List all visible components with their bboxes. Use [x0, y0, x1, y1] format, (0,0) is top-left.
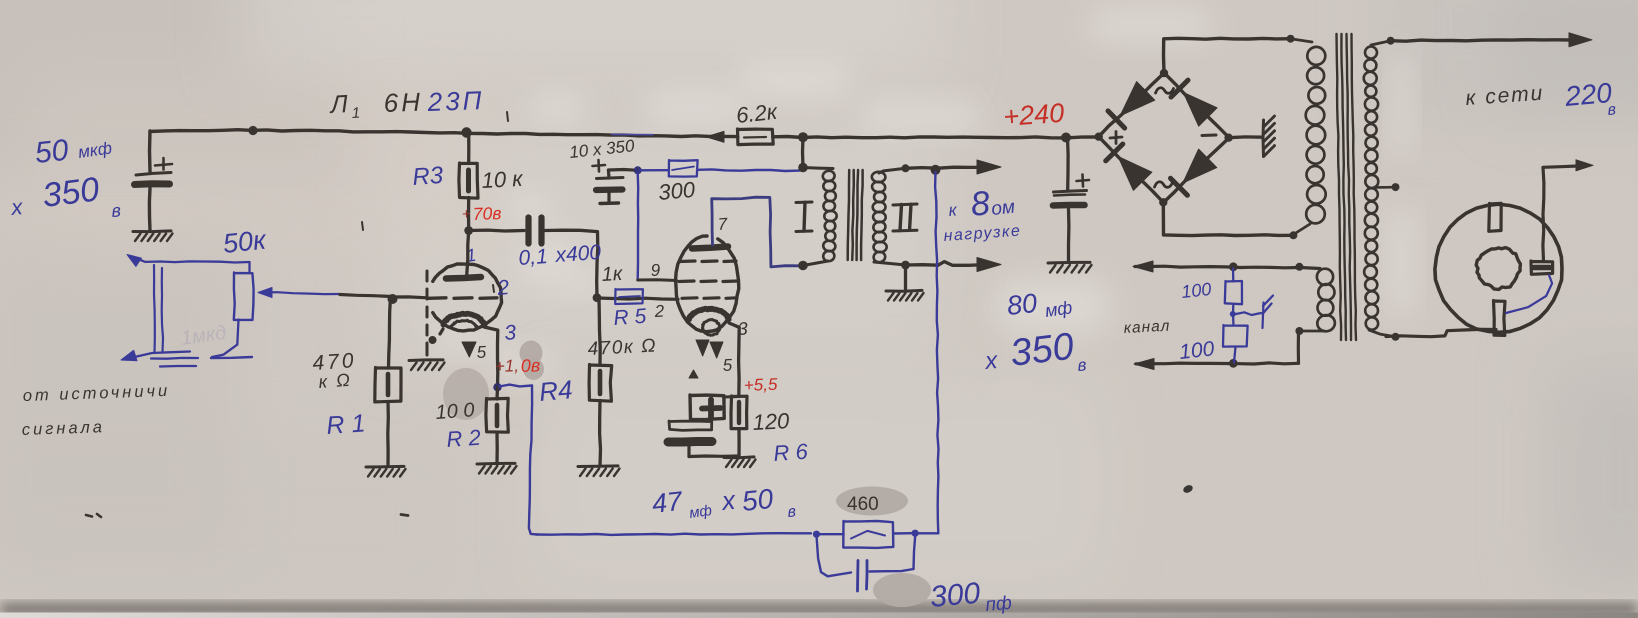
motor circle — [1435, 204, 1562, 332]
svg-text:7: 7 — [717, 214, 728, 233]
resistor R1 470k — [389, 297, 391, 368]
bridge top wire — [1164, 38, 1291, 73]
T1 core — [848, 170, 850, 260]
ground under C_50mkf — [133, 229, 171, 233]
wire node1 to V1 anode — [467, 231, 469, 275]
bridge - mark — [1202, 134, 1216, 138]
svg-text:80: 80 — [1005, 288, 1038, 321]
bridge ~ marks — [1156, 88, 1174, 94]
svg-text:23П: 23П — [426, 85, 485, 117]
resistor R6 120 — [731, 396, 747, 429]
wire top B+ bus — [150, 130, 738, 137]
svg-text:120: 120 — [752, 408, 791, 435]
svg-text:50к: 50к — [221, 225, 268, 259]
motor bottom dot — [1392, 333, 1400, 341]
bridge corner dots — [1095, 133, 1103, 141]
svg-text:0,1: 0,1 — [518, 245, 549, 270]
diode D3 lower-left — [1118, 156, 1152, 190]
T2 primary top dot — [1287, 35, 1295, 43]
V2 anode plate — [692, 247, 728, 249]
T1 primary bottom dot — [798, 261, 808, 271]
wire wiper to grid — [340, 295, 391, 297]
node dot C2 — [634, 166, 642, 174]
capacitor 300pf branch — [817, 536, 852, 577]
wire C1 to grid node — [545, 230, 598, 298]
resistor 100 lower (blue) — [1232, 314, 1235, 326]
svg-text:100: 100 — [1180, 279, 1212, 302]
resistor R4 470k — [599, 298, 600, 365]
V1 cathode arrow — [462, 342, 476, 357]
ground under R4 — [578, 464, 618, 468]
feedback left dot — [813, 531, 820, 538]
svg-text:R4: R4 — [538, 374, 574, 407]
svg-text:сигнала: сигнала — [22, 418, 106, 439]
mains arrow — [1391, 40, 1572, 42]
input arrow top — [132, 257, 250, 263]
wire to 460 — [817, 533, 844, 535]
V1 cathode — [443, 314, 484, 325]
svg-text:10 0: 10 0 — [435, 399, 475, 424]
motor right wire + arrow — [1543, 166, 1578, 262]
svg-text:460: 460 — [847, 494, 879, 515]
wire bus to T1 primary — [801, 137, 805, 167]
svg-text:х400: х400 — [554, 241, 602, 267]
svg-text:47: 47 — [650, 486, 684, 519]
node 1 dot — [464, 226, 473, 235]
motor blue rotation arc — [1506, 275, 1552, 313]
svg-text:2: 2 — [653, 301, 665, 321]
V1 cathode wire — [484, 327, 498, 387]
T1 secondary bottom out — [901, 261, 910, 270]
potentiometer 50k — [248, 262, 250, 273]
resistor R3 10k — [467, 131, 470, 164]
ground under T1 secondary — [904, 265, 907, 291]
svg-text:в: в — [1077, 355, 1088, 375]
svg-text:ом: ом — [990, 197, 1016, 220]
svg-text:мф: мф — [1044, 297, 1074, 321]
svg-text:0в: 0в — [520, 355, 540, 376]
V2 pin4 mark — [689, 370, 698, 378]
heater bottom wire — [1297, 331, 1300, 363]
motor bottom terminal — [1494, 301, 1506, 336]
svg-text:5: 5 — [476, 342, 487, 361]
V2 cathode — [689, 309, 729, 320]
bridge right wire + slant ground — [1229, 135, 1262, 139]
ground under R6 — [724, 455, 754, 459]
resistor 6.2k — [738, 129, 774, 145]
svg-text:мф: мф — [688, 502, 713, 522]
svg-text:пф: пф — [985, 593, 1013, 616]
svg-text:R 1: R 1 — [325, 409, 366, 440]
capacitor C2 10x350 — [608, 170, 637, 179]
T2 heater winding — [1300, 268, 1320, 269]
svg-text:+240: +240 — [1002, 98, 1065, 132]
ground under R2 — [477, 462, 515, 466]
V1 anode plate — [446, 277, 481, 279]
grid node dot — [593, 293, 602, 302]
bridge rectifier diamond — [1099, 73, 1230, 203]
center tap node blue — [1230, 311, 1236, 317]
wire 300 to transformer — [698, 169, 801, 171]
svg-text:+1,: +1, — [494, 356, 519, 376]
T2 tap dot — [1376, 186, 1394, 189]
chassis ground blue — [1236, 312, 1261, 315]
svg-text:R 5: R 5 — [613, 305, 648, 330]
svg-text:2: 2 — [495, 276, 510, 300]
arrowhead on B+ bus — [706, 131, 724, 142]
T1 secondary top out — [902, 164, 910, 172]
svg-text:10 к: 10 к — [481, 166, 525, 193]
V2 heater arrows — [696, 340, 709, 356]
svg-text:к Ω: к Ω — [318, 370, 353, 392]
V2 cathode wire — [729, 323, 739, 397]
svg-text:в: в — [111, 200, 122, 221]
svg-text:3: 3 — [503, 321, 517, 345]
svg-text:470к Ω: 470к Ω — [587, 335, 657, 360]
svg-text:8: 8 — [969, 184, 992, 224]
capacitor C1 0.1x400 — [525, 218, 531, 244]
svg-text:в: в — [787, 503, 797, 521]
V1 shield dashed line — [426, 271, 429, 281]
resistor R5 1k (blue box) — [615, 289, 643, 304]
T2 primary bottom dot — [1289, 231, 1297, 239]
redaction blobs — [520, 341, 543, 366]
triode V1 envelope — [433, 264, 502, 331]
svg-text:50: 50 — [33, 134, 70, 170]
svg-text:6Н: 6Н — [383, 87, 423, 118]
svg-text:5: 5 — [722, 355, 733, 374]
svg-text:350: 350 — [1008, 326, 1076, 375]
resistor 460 (blue box) — [843, 521, 893, 548]
svg-text:R 6: R 6 — [773, 439, 810, 466]
ground under R1 — [366, 465, 404, 469]
whiteout patches — [506, 193, 552, 224]
label II — [893, 204, 917, 205]
capacitor C_50mkf 350v — [148, 131, 152, 172]
wire blue down to pin9 — [637, 173, 640, 279]
T2 core — [1337, 34, 1342, 340]
bridge bottom wire — [1163, 202, 1293, 235]
T1 secondary winding — [872, 172, 886, 183]
paper specks — [86, 515, 92, 517]
wire blue to 300 — [641, 169, 669, 172]
svg-text:+5,5: +5,5 — [743, 375, 778, 395]
svg-text:300: 300 — [657, 177, 697, 205]
svg-text:Л: Л — [328, 90, 349, 119]
capacitor C4 80mkf — [1066, 138, 1070, 190]
heater top wire — [1135, 266, 1300, 268]
feedback wire from R2 node — [499, 385, 532, 387]
label I — [796, 201, 812, 205]
triode V2 envelope — [676, 236, 739, 332]
svg-text:300: 300 — [929, 577, 982, 614]
svg-text:1: 1 — [351, 105, 360, 122]
svg-text:50: 50 — [740, 483, 775, 517]
wire 460 to right dot — [894, 532, 913, 535]
diode D4 lower-right — [1183, 149, 1217, 183]
ground under V1 shield — [409, 358, 443, 362]
svg-text:1к: 1к — [601, 263, 624, 286]
resistor R2 100 — [495, 387, 499, 399]
svg-text:70в: 70в — [472, 203, 501, 224]
capacitor C3 47mkf bypass — [690, 395, 724, 420]
wire grid node to V2 grid — [597, 298, 678, 299]
svg-text:220: 220 — [1563, 77, 1614, 112]
motor top terminal — [1489, 203, 1501, 231]
svg-text:R 2: R 2 — [446, 425, 482, 452]
wire V2 anode to T1 primary — [712, 197, 800, 267]
T2 primary winding — [1291, 39, 1312, 42]
wire grid entry — [391, 295, 427, 299]
ground under C4 — [1048, 261, 1090, 265]
svg-text:канал: канал — [1123, 318, 1170, 337]
svg-text:6.2к: 6.2к — [735, 99, 780, 128]
wire node1 to C1 — [469, 228, 524, 232]
feedback vertical from T1 — [935, 172, 938, 533]
T1 primary winding — [803, 168, 833, 169]
motor right terminal — [1531, 261, 1553, 274]
heater wire dots — [1229, 262, 1238, 271]
diode D2 upper-right — [1183, 93, 1217, 127]
input junction dot — [388, 294, 398, 304]
input shield cable — [153, 265, 156, 353]
resistor 100 upper (blue) — [1232, 269, 1235, 282]
svg-text:100: 100 — [1178, 337, 1216, 364]
resistor 300 (blue box) — [669, 160, 698, 177]
svg-text:в: в — [1607, 101, 1617, 119]
V2 grid dashes — [680, 259, 695, 263]
T2 secondary winding — [1371, 41, 1391, 45]
diode D1 upper-left — [1120, 82, 1155, 116]
motor inner circle — [1476, 248, 1520, 290]
junction dots on bus — [248, 126, 257, 135]
svg-text:9: 9 — [650, 260, 661, 279]
pot wiper arrow — [262, 292, 340, 294]
motor bottom wire — [1386, 329, 1496, 336]
V1 grid dashes — [428, 296, 446, 300]
feedback tap dot — [931, 165, 941, 175]
svg-text:+: + — [462, 206, 472, 223]
blue ink segment on bus — [612, 133, 653, 135]
input arrow bottom — [128, 352, 190, 359]
svg-text:350: 350 — [40, 170, 101, 215]
wire pin9 horizontal — [638, 278, 677, 282]
V1 pin9 dot — [429, 336, 437, 344]
bridge + mark — [1110, 137, 1122, 138]
svg-text:R3: R3 — [412, 162, 445, 191]
cathode node dot V1 — [493, 383, 501, 391]
mains top dot — [1387, 37, 1395, 45]
